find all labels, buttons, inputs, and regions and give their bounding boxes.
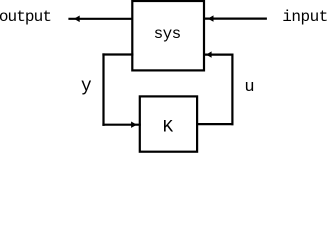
wire sys left exit horizontal (102, 53, 133, 55)
svg-text:K: K (163, 117, 174, 137)
block K (140, 96, 197, 151)
arrowhead input (208, 15, 214, 21)
svg-text:input: input (282, 8, 327, 26)
svg-text:sys: sys (154, 25, 181, 43)
svg-text:output: output (0, 8, 51, 26)
svg-text:u: u (244, 78, 253, 97)
arrowhead y (131, 122, 137, 128)
arrowhead u (206, 51, 212, 57)
wire u horizontal into sys (204, 53, 234, 55)
wire y horizontal into K (102, 124, 140, 126)
arrowhead output (74, 16, 80, 23)
block sys (132, 1, 204, 70)
wire right vertical (231, 54, 233, 126)
wire input line (204, 18, 267, 20)
wire K right horizontal (196, 123, 233, 125)
wire left vertical (102, 53, 104, 126)
wire output line (68, 18, 132, 20)
svg-text:y: y (81, 76, 92, 96)
